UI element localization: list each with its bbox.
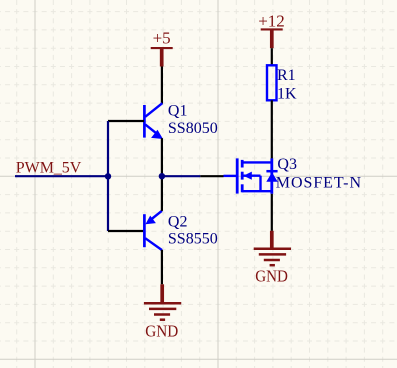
svg-text:Q3: Q3: [277, 156, 297, 173]
svg-text:MOSFET-N: MOSFET-N: [276, 175, 362, 192]
Q1 labels: [168, 103, 218, 138]
power port +12: [258, 11, 285, 48]
svg-text:Q1: Q1: [168, 103, 188, 120]
Q2 base pin: [108, 230, 144, 232]
Q3 labels: [276, 156, 362, 192]
Q3 gate pin: [200, 175, 223, 177]
Q1 emitter pin: [161, 138, 163, 176]
svg-text:1K: 1K: [277, 85, 297, 102]
junction base rail: [105, 173, 111, 179]
svg-text:GND: GND: [255, 267, 288, 286]
svg-text:SS8050: SS8050: [168, 120, 218, 137]
wire base rail: [107, 121, 109, 231]
wire R1 to Q3 drain pin: [271, 100, 273, 158]
power port GND right: [254, 231, 291, 286]
svg-text:GND: GND: [145, 322, 178, 341]
Q2 labels: [168, 214, 218, 248]
R1 labels: [277, 67, 297, 102]
svg-text:PWM_5V: PWM_5V: [16, 160, 82, 177]
resistor R1: [267, 65, 277, 100]
mosfet Q3: [224, 158, 278, 194]
transistor Q2: [144, 211, 162, 250]
Q2 collector pin: [161, 250, 163, 284]
Q1 collector pin: [161, 67, 163, 104]
Q3 source pin: [271, 194, 273, 231]
svg-text:SS8550: SS8550: [168, 230, 218, 247]
svg-text:+12: +12: [258, 11, 285, 30]
power port +5: [151, 29, 173, 67]
power port GND left: [144, 284, 181, 340]
wire output to gate: [162, 175, 200, 177]
svg-text:R1: R1: [277, 67, 296, 84]
svg-text:Q2: Q2: [168, 214, 188, 231]
R1 top pin: [271, 48, 273, 65]
junction output node: [159, 173, 165, 179]
wire PWM_5V: [15, 175, 108, 177]
svg-text:+5: +5: [153, 29, 171, 48]
Q2 emitter pin: [161, 176, 163, 211]
transistor Q1: [144, 103, 163, 139]
Q1 base pin: [108, 120, 144, 122]
